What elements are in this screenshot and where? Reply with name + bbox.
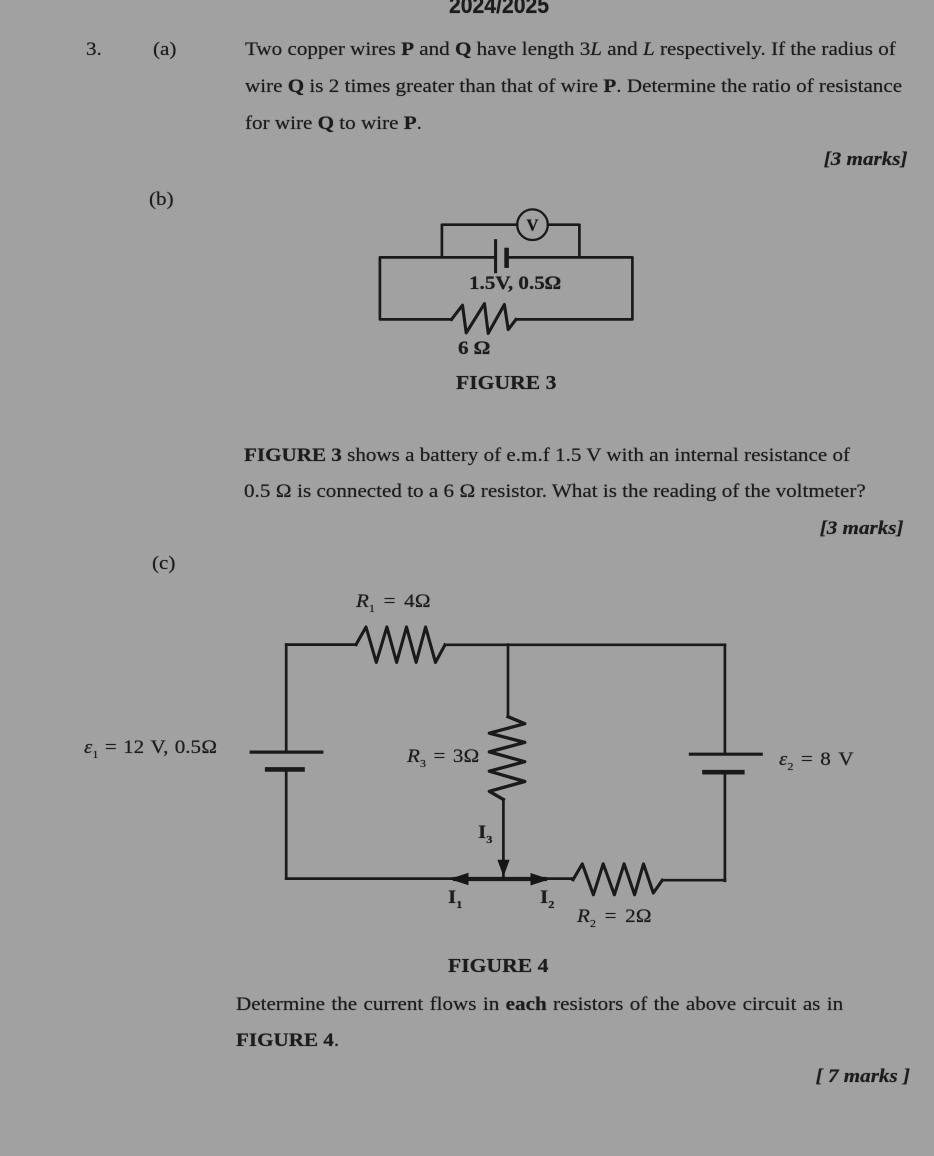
svg-text:V: V bbox=[527, 216, 539, 235]
